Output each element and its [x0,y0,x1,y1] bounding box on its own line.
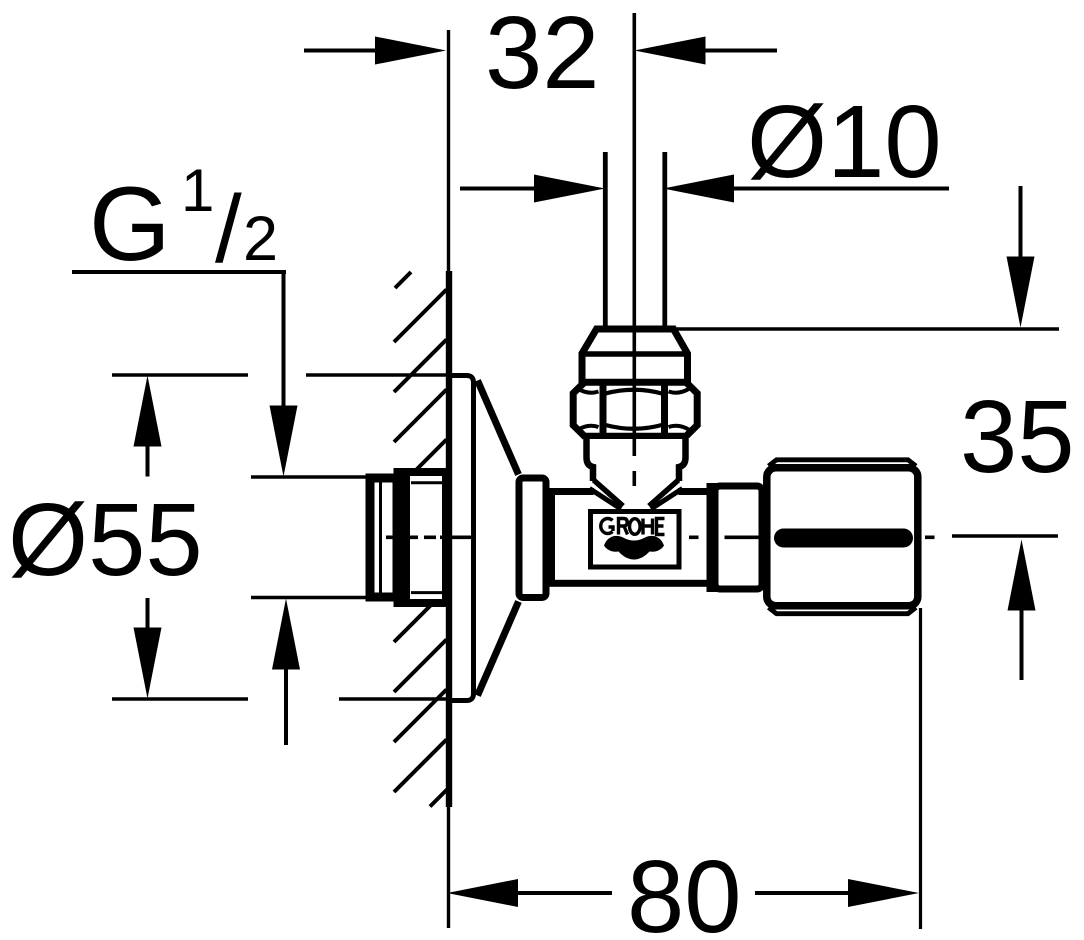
wall line [447,30,451,928]
svg-text:2: 2 [243,204,278,274]
dimension O55 [8,375,449,699]
GROHE label box [591,512,680,568]
knob body [767,468,918,606]
compression ferrule cap [580,327,690,384]
knob top chamfer line [769,460,917,466]
G1/2 threaded nipple outer ring [394,468,447,607]
compression hex nut [573,382,697,436]
escutcheon collar [519,478,546,598]
label G 1/2 [72,157,366,745]
escutcheon cone bottom slant [478,602,519,696]
valve body tube [552,492,711,584]
svg-text:32: 32 [485,0,600,110]
svg-text:1: 1 [181,157,214,224]
dimension 35 [675,186,1075,680]
bonnet step band [707,483,719,592]
G1/2 threaded nipple end ring [370,477,397,598]
svg-text:80: 80 [627,839,742,940]
valve inlet neck and boss [583,439,689,498]
knob slot [774,529,913,548]
dimension O10 [460,84,949,203]
svg-text:Ø55: Ø55 [8,482,203,597]
svg-text:G: G [89,166,171,283]
vertical centerline [632,13,636,486]
dimension 32 [304,0,777,110]
svg-text:Ø10: Ø10 [747,84,942,199]
dimension 80 [447,608,921,940]
wall hatching [394,272,447,807]
pipe left line [603,152,608,329]
horizontal centerline [386,535,935,539]
escutcheon cone top slant [478,381,519,475]
svg-text:/: / [215,176,242,283]
valve bonnet [715,486,762,589]
knob bottom chamfer line [769,608,917,614]
inlet funnel V [590,480,683,509]
pipe right line [662,152,667,329]
svg-text:35: 35 [960,379,1075,494]
escutcheon flange face [450,376,474,701]
